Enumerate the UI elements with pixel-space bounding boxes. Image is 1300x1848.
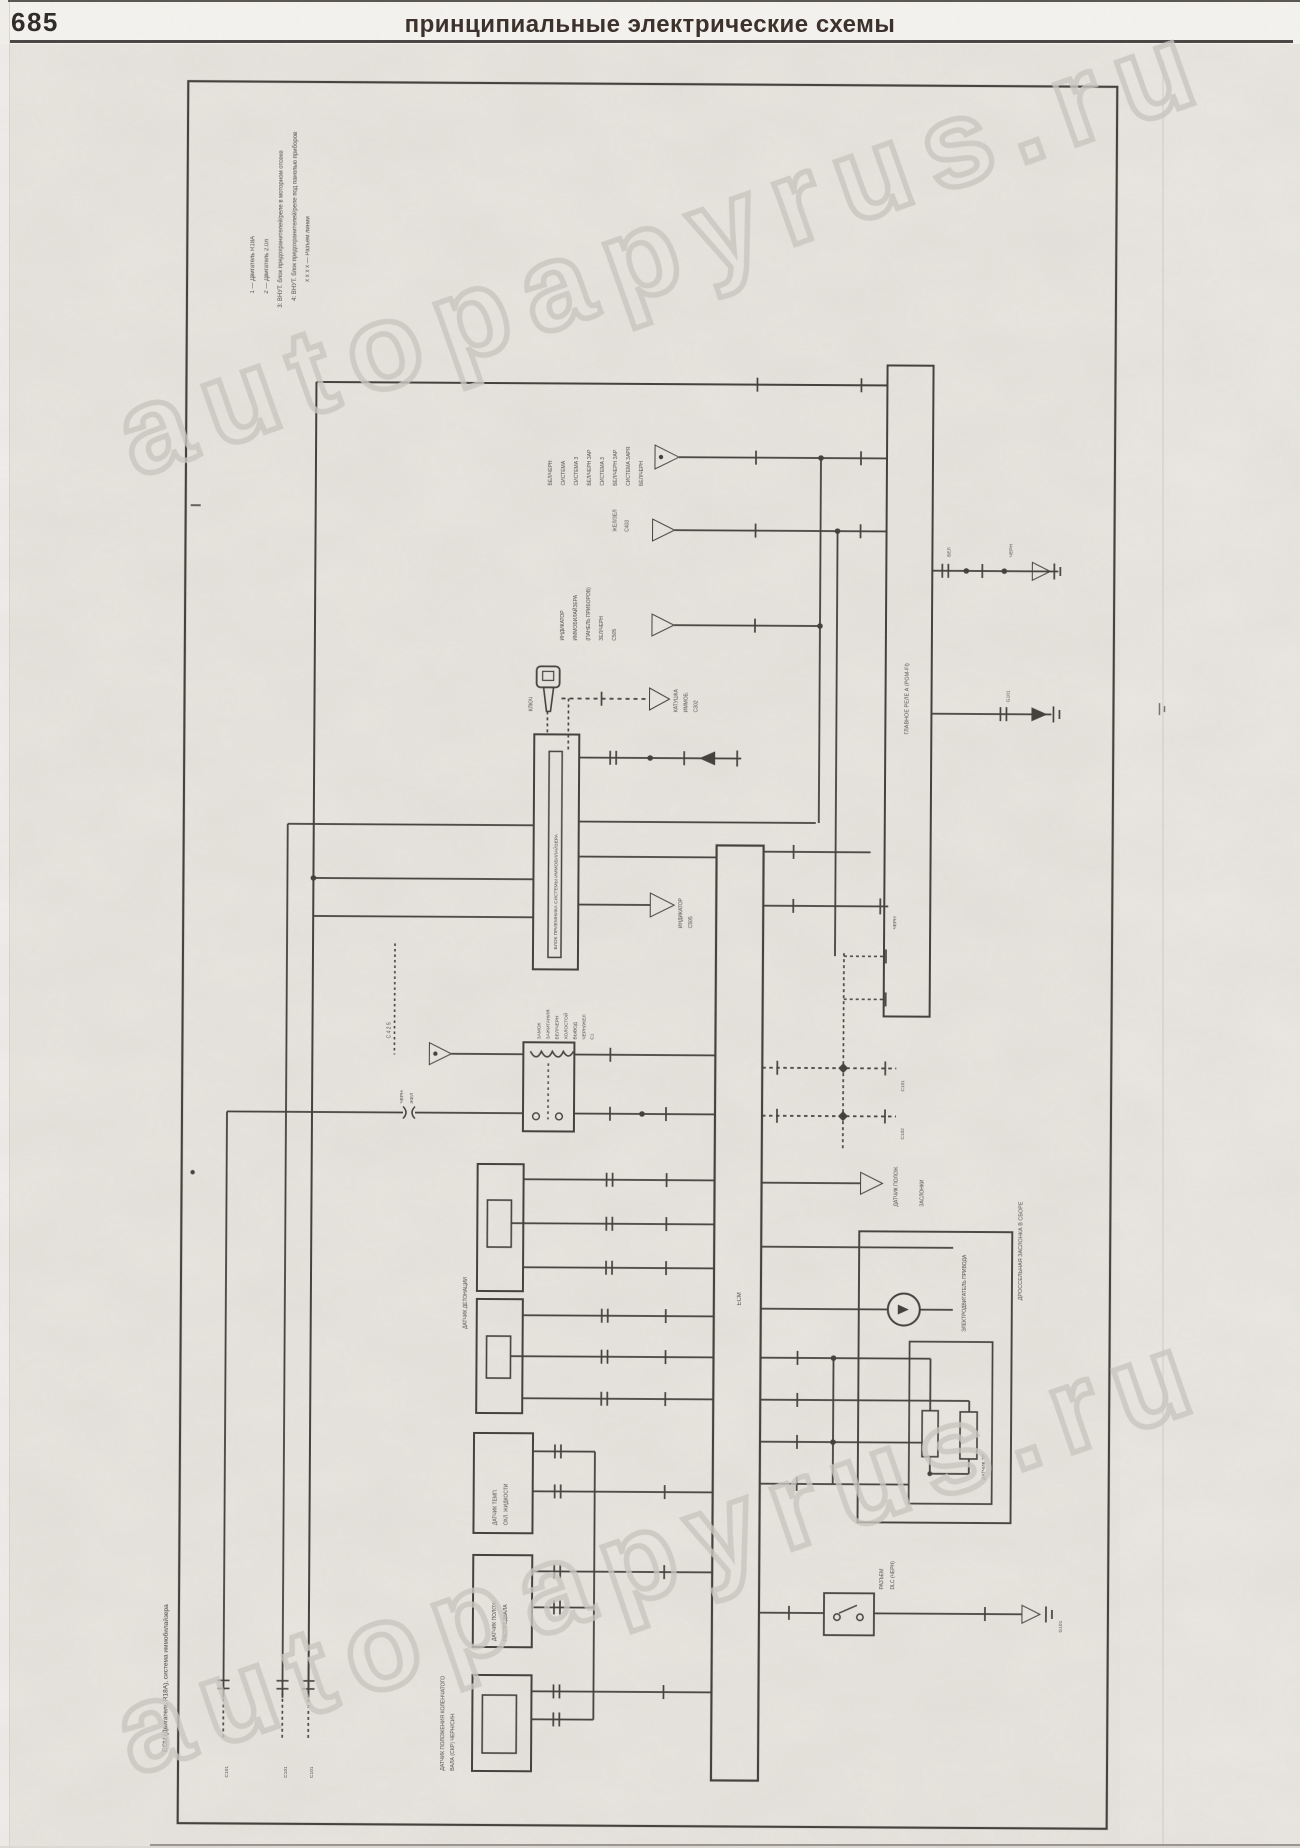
svg-text:ВАЛА (СКР) ЧЕРН/СИН: ВАЛА (СКР) ЧЕРН/СИН (450, 1713, 456, 1770)
svg-text:ИНДИКАТОР: ИНДИКАТОР (678, 897, 684, 928)
svg-text:1 — Двигатель R18A: 1 — Двигатель R18A (250, 236, 256, 294)
svg-text:С101: С101 (283, 1766, 289, 1778)
svg-text:ЖЕЛ: ЖЕЛ (409, 1093, 415, 1104)
svg-text:ЧЕРН: ЧЕРН (892, 916, 898, 930)
svg-text:РАЗЪЕМ: РАЗЪЕМ (879, 1569, 885, 1590)
svg-text:ИММОБ.: ИММОБ. (683, 692, 689, 713)
svg-text:ДАТЧИК ПОЛОЖЕНИЯ КОЛЕНЧАТОГО: ДАТЧИК ПОЛОЖЕНИЯ КОЛЕНЧАТОГО (440, 1676, 447, 1771)
svg-text:ГЛАВНОЕ РЕЛЕ А (PGM-FI): ГЛАВНОЕ РЕЛЕ А (PGM-FI) (904, 663, 910, 735)
svg-text:ДРОССЕЛЬНАЯ ЗАСЛОНКА В СБОРЕ: ДРОССЕЛЬНАЯ ЗАСЛОНКА В СБОРЕ (1018, 1201, 1025, 1300)
svg-text:ЖЕЛ/ЗЕЛ: ЖЕЛ/ЗЕЛ (613, 509, 619, 531)
svg-text:ЗАЖИГАНИЯ: ЗАЖИГАНИЯ (545, 1009, 551, 1039)
svg-text:ЧЕРН: ЧЕРН (1008, 544, 1014, 558)
svg-text:С 4 2 5: С 4 2 5 (386, 1022, 392, 1038)
svg-text:С302: С302 (693, 700, 699, 712)
svg-text:С101: С101 (309, 1766, 315, 1778)
svg-text:БЕЛ/ЧЕРН ЗАР: БЕЛ/ЧЕРН ЗАР (587, 449, 593, 486)
svg-text:3: ВНУТ. блок предохранителей/: 3: ВНУТ. блок предохранителей/реле в мот… (277, 150, 285, 308)
svg-text:DLC (ЧЕРН): DLC (ЧЕРН) (890, 1561, 896, 1590)
svg-text:ВЫВОД: ВЫВОД (572, 1021, 578, 1039)
svg-text:КАТУШКА: КАТУШКА (673, 689, 679, 713)
svg-text:С1: С1 (589, 1033, 595, 1040)
svg-text:ЭЛЕКТРОДВИГАТЕЛЬ ПРИВОДА: ЭЛЕКТРОДВИГАТЕЛЬ ПРИВОДА (962, 1254, 968, 1332)
svg-text:СИСТЕМА: СИСТЕМА (561, 460, 567, 485)
svg-text:ЕСМ: ЕСМ (737, 1292, 743, 1305)
svg-text:2 — Двигатель 2.0л: 2 — Двигатель 2.0л (264, 239, 270, 294)
svg-text:С403: С403 (625, 520, 631, 532)
svg-text:(ПАНЕЛЬ ПРИБОРОВ): (ПАНЕЛЬ ПРИБОРОВ) (586, 587, 592, 641)
svg-text:ИНДИКАТОР: ИНДИКАТОР (560, 610, 566, 641)
svg-text:СИСТЕМА 3: СИСТЕМА 3 (600, 457, 606, 486)
svg-text:ЗАСЛОНКИ: ЗАСЛОНКИ (919, 1179, 925, 1206)
svg-text:G101: G101 (1006, 690, 1012, 702)
svg-text:4: ВНУТ. блок предохранителей/: 4: ВНУТ. блок предохранителей/реле под п… (291, 132, 299, 301)
svg-text:G101: G101 (1058, 1620, 1064, 1632)
svg-text:СИСТЕМА З: СИСТЕМА З (574, 457, 580, 486)
svg-text:КЛЮЧ: КЛЮЧ (528, 697, 534, 711)
svg-text:СИСТЕМА ЗАРЯ: СИСТЕМА ЗАРЯ (626, 446, 632, 486)
svg-text:БЕЛ/ЧЕРН: БЕЛ/ЧЕРН (548, 460, 554, 485)
svg-text:БЕЛ/ЧЕРН: БЕЛ/ЧЕРН (639, 461, 645, 486)
svg-text:х х х х — Разъем линии: х х х х — Разъем линии (305, 216, 311, 282)
svg-text:С102: С102 (900, 1128, 906, 1140)
svg-text:ЗЕЛ/ЧЕРН: ЗЕЛ/ЧЕРН (599, 616, 605, 641)
svg-text:БЕЛ: БЕЛ (946, 547, 952, 557)
svg-text:ЗАМОК: ЗАМОК (536, 1022, 542, 1039)
svg-text:ДАТЧИК ТЕМП.: ДАТЧИК ТЕМП. (492, 1489, 498, 1525)
svg-text:ДАТЧИК ПОЛОЖ.: ДАТЧИК ПОЛОЖ. (893, 1165, 899, 1206)
svg-text:ЧЕРН: ЧЕРН (399, 1090, 405, 1104)
svg-text:С505: С505 (612, 629, 618, 641)
svg-text:ЧЕРН/ЖЕЛ: ЧЕРН/ЖЕЛ (581, 1014, 587, 1039)
svg-text:ОХЛ. ЖИДКОСТИ: ОХЛ. ЖИДКОСТИ (503, 1483, 509, 1525)
svg-text:С505: С505 (688, 916, 694, 928)
svg-text:БЕЛ/ЧЕРН: БЕЛ/ЧЕРН (554, 1015, 560, 1039)
svg-text:ДАТЧИК ДЕТОНАЦИИ: ДАТЧИК ДЕТОНАЦИИ (463, 1277, 469, 1329)
svg-text:БЕЛ/ЧЕРН ЗАР: БЕЛ/ЧЕРН ЗАР (613, 449, 619, 486)
svg-text:С101: С101 (900, 1080, 906, 1092)
